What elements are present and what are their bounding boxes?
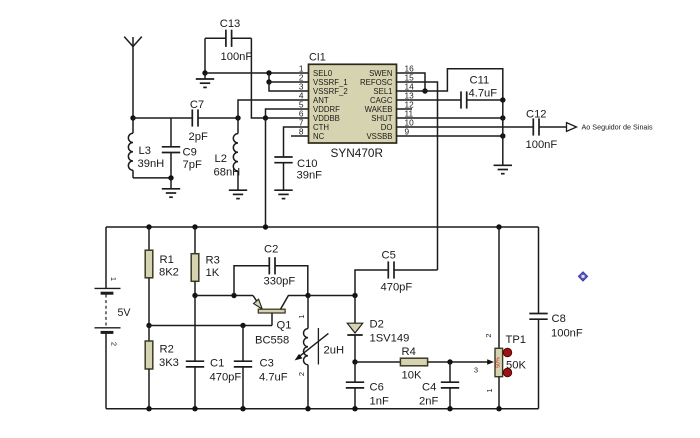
label C11 value: [469, 75, 498, 100]
node rail bottom C6: [352, 406, 357, 411]
svg-text:WAKEB: WAKEB: [365, 105, 393, 114]
label C2 value: [264, 244, 296, 288]
svg-text:3K3: 3K3: [159, 357, 179, 369]
wire C7 to L2 node: [198, 117, 238, 119]
label Q1 value: [255, 320, 291, 347]
capacitor C9: [162, 118, 180, 178]
node rail bottom C3: [240, 406, 245, 411]
wire pin 15 REFOSC down to C5: [397, 82, 438, 270]
chip pin numbers left 1-8: [299, 63, 304, 136]
svg-text:SHUT: SHUT: [371, 114, 392, 123]
svg-text:REFOSC: REFOSC: [360, 78, 393, 87]
wire ANT node up to pin 4: [238, 100, 309, 118]
node rail bottom C1: [192, 406, 197, 411]
svg-text:4.7uF: 4.7uF: [469, 88, 498, 100]
test point red dot lower: [503, 368, 511, 376]
svg-text:CAGC: CAGC: [370, 96, 393, 105]
svg-text:100nF: 100nF: [551, 328, 583, 340]
node R3 emitter junction: [192, 293, 197, 298]
svg-text:C12: C12: [526, 109, 547, 121]
svg-text:3: 3: [474, 366, 478, 375]
ground under bus: [494, 164, 512, 166]
capacitor C12: [533, 118, 566, 135]
label L2 value: [214, 153, 241, 179]
svg-text:2pF: 2pF: [189, 131, 208, 143]
node pin1/pin2 tie: [266, 70, 271, 75]
wire pin 16 SWEN to SEL1: [397, 73, 426, 91]
wire pin 11 SHUT to bus: [397, 117, 503, 119]
label C3 value: [259, 358, 288, 384]
capacitor C13: [205, 30, 251, 47]
svg-text:8K2: 8K2: [159, 267, 179, 279]
capacitor C6: [346, 362, 364, 409]
inductor L2: [233, 118, 238, 190]
resistor R4: [400, 358, 427, 366]
capacitor C8: [529, 227, 547, 409]
wire tank line antenna to C9: [133, 117, 171, 119]
wire pin 7 CTH: [284, 127, 309, 157]
wire C13 left down to ground node: [204, 38, 206, 73]
wire pin 1 SEL0: [205, 72, 309, 74]
svg-text:1K: 1K: [206, 267, 220, 279]
wire pin2 to pin3 bend: [269, 82, 309, 91]
output arrow to signal follower: [567, 123, 577, 132]
wire ground bottom rail: [106, 408, 539, 410]
capacitor C2: [234, 257, 308, 295]
wire base line R1/R2 to base: [149, 325, 272, 327]
svg-text:VDDRF: VDDRF: [313, 105, 340, 114]
resistor R2: [145, 326, 153, 409]
capacitor C3: [234, 326, 252, 409]
wire collector line to D2: [308, 295, 355, 297]
label C1 value: [210, 358, 242, 384]
svg-text:C7: C7: [190, 99, 204, 111]
node D2/R4/C6 junction: [352, 359, 357, 364]
label R4 value: [402, 346, 422, 382]
node R1/R2 base junction: [146, 323, 151, 328]
svg-text:ANT: ANT: [313, 96, 329, 105]
op-amp U1 body - IC CI1 SYN470R: [309, 64, 397, 143]
svg-text:2: 2: [110, 342, 119, 346]
svg-text:R1: R1: [160, 254, 174, 266]
node rail bottom L1: [305, 406, 310, 411]
label C8 value: [551, 313, 583, 340]
svg-text:39nH: 39nH: [138, 158, 165, 170]
svg-text:SEL1: SEL1: [373, 87, 392, 96]
svg-text:SWEN: SWEN: [369, 69, 392, 78]
svg-text:C13: C13: [220, 18, 241, 30]
wire pin 2 VSSRF_1: [269, 81, 309, 83]
label C4 value: [419, 382, 438, 408]
svg-text:DO: DO: [381, 123, 393, 132]
inductor L3: [128, 118, 133, 178]
potentiometer TP1 50K: [495, 227, 503, 409]
node bus at VSSBB: [500, 133, 505, 138]
capacitor C4: [441, 362, 459, 409]
svg-text:C3: C3: [260, 358, 274, 370]
wire pin 9 VSSBB to bus: [397, 135, 503, 137]
svg-text:4.7uF: 4.7uF: [259, 372, 288, 384]
wire +5V top rail: [106, 226, 539, 228]
svg-text:C10: C10: [297, 158, 318, 170]
capacitor C10: [274, 157, 292, 190]
svg-text:C4: C4: [422, 382, 436, 394]
label C6 value: [370, 382, 389, 408]
svg-text:SYN470R: SYN470R: [331, 146, 383, 160]
node collector/C2/L1 junction: [305, 293, 310, 298]
svg-text:39nF: 39nF: [297, 170, 323, 182]
svg-text:CTH: CTH: [313, 123, 329, 132]
ground under C9: [162, 178, 180, 197]
wire pin 13 CAGC to C11: [397, 99, 462, 101]
node rail bottom C4: [447, 406, 452, 411]
node base/C3 junction: [240, 323, 245, 328]
label L3 value: [138, 145, 165, 170]
svg-text:SEL0: SEL0: [313, 69, 333, 78]
capacitor C11: [461, 91, 503, 108]
wire pin 10 DO to C12: [397, 126, 534, 128]
node rail bottom R2: [146, 406, 151, 411]
svg-text:7pF: 7pF: [183, 159, 202, 171]
svg-text:2uH: 2uH: [324, 345, 345, 357]
svg-text:2nF: 2nF: [419, 396, 438, 408]
node D2 top junction: [352, 293, 357, 298]
resistor R3: [191, 227, 199, 296]
svg-text:8: 8: [299, 126, 304, 136]
wire pin 8 NC stub: [291, 135, 309, 137]
svg-text:9: 9: [405, 126, 410, 136]
svg-text:VDDBB: VDDBB: [313, 114, 340, 123]
capacitor C1: [186, 296, 204, 409]
chip pin names right: [360, 69, 393, 141]
node rail TP1: [496, 224, 501, 229]
svg-text:BC558: BC558: [255, 335, 289, 347]
svg-text:470pF: 470pF: [381, 282, 413, 294]
svg-text:470pF: 470pF: [210, 372, 242, 384]
wire pin1 to pin2 vertical: [268, 73, 270, 82]
node R4/C4 junction: [447, 359, 452, 364]
wire D2 to R4: [355, 361, 400, 363]
label C13 value: [220, 18, 253, 63]
label D2 value: [370, 319, 410, 345]
node SWEN/SEL1 tie: [422, 88, 427, 93]
svg-text:R3: R3: [206, 255, 220, 267]
node pin2 tie: [266, 79, 271, 84]
svg-text:C2: C2: [264, 244, 278, 256]
svg-text:NC: NC: [313, 132, 325, 141]
transistor Q1 BC558: [253, 296, 308, 326]
test point red dot upper: [503, 348, 511, 356]
svg-text:68nH: 68nH: [214, 167, 241, 179]
svg-text:100nF: 100nF: [221, 51, 253, 63]
svg-text:100nF: 100nF: [526, 139, 558, 151]
node VDD junction: [263, 115, 268, 120]
svg-text:L2: L2: [215, 153, 227, 165]
svg-text:1SV149: 1SV149: [370, 333, 410, 345]
node bus at CAGC: [500, 97, 505, 102]
svg-text:L3: L3: [139, 145, 151, 157]
svg-text:2: 2: [297, 372, 306, 376]
svg-text:C5: C5: [382, 250, 396, 262]
chip pin names left: [313, 69, 348, 141]
svg-text:2: 2: [484, 333, 493, 337]
ground under C10: [274, 189, 292, 191]
svg-text:1: 1: [109, 277, 118, 281]
capacitor C5: [355, 261, 438, 295]
label R2 value: [159, 344, 179, 370]
svg-text:R2: R2: [160, 344, 174, 356]
svg-text:10K: 10K: [402, 370, 422, 382]
svg-text:Q1: Q1: [277, 320, 292, 332]
wire ground bus vertical: [502, 100, 504, 165]
svg-text:D2: D2: [370, 319, 384, 331]
svg-text:1: 1: [485, 388, 494, 392]
wire tank to C7: [171, 117, 192, 119]
svg-text:VSSBB: VSSBB: [366, 132, 392, 141]
wiper arrow into TP1: [487, 359, 494, 365]
label R3 value: [206, 255, 220, 280]
node rail R3: [192, 224, 197, 229]
svg-text:50%: 50%: [495, 357, 501, 368]
origin marker blue diamond: [578, 272, 587, 281]
svg-text:CI1: CI1: [309, 52, 326, 64]
svg-text:330pF: 330pF: [264, 276, 296, 288]
svg-text:1nF: 1nF: [370, 396, 389, 408]
svg-text:TP1: TP1: [506, 334, 527, 346]
label C5 value: [381, 250, 413, 294]
node bus at SHUT: [500, 115, 505, 120]
diode D2 1SV149 varicap: [347, 296, 362, 363]
node C2 left junction: [231, 293, 236, 298]
svg-text:R4: R4: [402, 346, 416, 358]
svg-text:C9: C9: [183, 147, 197, 159]
battery BAT 5V: [95, 227, 121, 409]
node C13/SEL0 ground junction: [202, 70, 207, 75]
wire C13 right down to VDD node: [251, 38, 265, 118]
resistor R1: [145, 227, 153, 326]
svg-text:C1: C1: [210, 358, 224, 370]
svg-text:C6: C6: [370, 382, 384, 394]
svg-text:5V: 5V: [118, 307, 132, 319]
wire VDD node down to +5V rail: [265, 118, 267, 227]
chip pin numbers right 16-9: [405, 63, 415, 136]
label C7 value: [189, 99, 208, 143]
wire pin 6 VDDBB: [266, 117, 309, 119]
wire pin 12 WAKEB stub: [397, 108, 413, 110]
svg-text:VSSRF_2: VSSRF_2: [313, 87, 348, 96]
node L3/C9 bottom junction: [133, 175, 174, 180]
antenna AE1: [124, 37, 142, 118]
ground under C13 node: [196, 73, 214, 87]
label C9 value: [183, 147, 202, 172]
label C12 value: [526, 109, 558, 152]
wire emitter line: [195, 295, 253, 297]
node ANT tank junction at antenna: [130, 115, 135, 120]
node rail bottom TP1: [496, 406, 501, 411]
svg-text:C11: C11: [470, 75, 490, 87]
svg-text:1: 1: [297, 314, 306, 318]
node rail R1: [146, 224, 151, 229]
svg-text:VSSRF_1: VSSRF_1: [313, 78, 348, 87]
ground under L2: [229, 189, 247, 191]
capacitor C7: [191, 109, 193, 126]
inductor L1 2uH variable: [295, 296, 329, 409]
node rail VDD drop: [263, 224, 268, 229]
label R1 value: [159, 254, 179, 279]
svg-text:Ao Seguidor de Sinais: Ao Seguidor de Sinais: [582, 123, 654, 132]
node tank/L2/ANT junction: [235, 115, 240, 120]
wire pin 5 VDDRF: [266, 109, 309, 118]
wire pin 14 SEL1 over to bus: [397, 69, 503, 100]
wire R4 to wiper: [428, 361, 490, 363]
label C10 value: [297, 158, 323, 182]
svg-text:C8: C8: [552, 313, 566, 325]
